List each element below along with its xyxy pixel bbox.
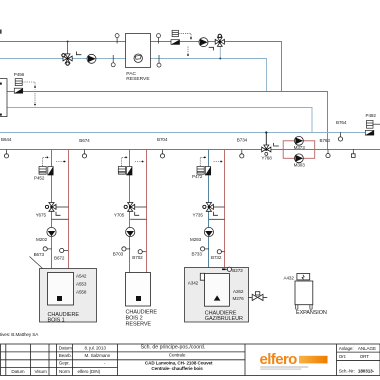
stub circle below blue before PAC: [111, 55, 115, 67]
boiler 3 outer box: [185, 268, 249, 323]
wire: red riser 2: [146, 150, 148, 273]
sensor group 2: [118, 157, 144, 176]
svg-text:B704: B704: [157, 137, 168, 142]
svg-text:B644: B644: [1, 137, 12, 142]
svg-text:B732: B732: [211, 255, 222, 260]
svg-text:A342: A342: [188, 280, 199, 285]
svg-text:ANLAGE: ANLAGE: [358, 346, 376, 351]
svg-text:M293: M293: [190, 237, 202, 242]
clipped label top-left: [0, 30, 2, 34]
svg-text:P456: P456: [14, 72, 25, 77]
stub circle above red after PAC: [157, 34, 161, 44]
square well sensor: [352, 149, 356, 157]
boiler 2 box: [126, 273, 151, 307]
flag on red line: [171, 40, 180, 45]
svg-text:Y705: Y705: [114, 213, 125, 218]
svg-text:Bearb.: Bearb.: [59, 353, 72, 358]
svg-text:A432: A432: [284, 276, 295, 281]
svg-text:elfero: elfero: [260, 351, 298, 368]
wire: blue header y=132.2: [0, 132, 374, 134]
svg-text:Sch. de principe-pos./coord.: Sch. de principe-pos./coord.: [141, 344, 206, 350]
boiler 1 inner box: [48, 273, 74, 306]
pump P2 on red: [199, 38, 208, 47]
control dashed line P456: [22, 82, 35, 107]
pump P1 on blue: [87, 54, 96, 63]
svg-text:B764: B764: [336, 120, 347, 125]
svg-text:B733: B733: [192, 252, 203, 257]
svg-text:B702: B702: [132, 255, 143, 260]
valve V1 3-way on blue: [62, 42, 72, 65]
svg-text:CAD Lanvoina, CH- 2108 Couvet: CAD Lanvoina, CH- 2108 Couvet: [145, 361, 213, 366]
svg-text:B673: B673: [34, 252, 45, 257]
sensor B273: [222, 267, 243, 273]
elfero logo: [260, 351, 328, 370]
wire: tier2 blue y=107.8: [7, 108, 312, 133]
sensor B764 on blue header: [336, 120, 347, 141]
svg-text:tives: B.Matthey SA: tives: B.Matthey SA: [0, 332, 39, 337]
svg-text:8. jul. 2013: 8. jul. 2013: [85, 345, 107, 350]
pump M293: [190, 227, 213, 241]
sensor P456 flag on red tier2: [14, 88, 22, 93]
burner mark: [57, 296, 62, 301]
sensor B734: [237, 138, 248, 158]
svg-text:P472: P472: [192, 174, 203, 179]
wire: red header y=149.3: [0, 149, 380, 151]
svg-text:Datum: Datum: [59, 345, 72, 350]
svg-text:A558: A558: [76, 290, 87, 295]
wire: red riser 3: [224, 150, 226, 274]
svg-text:B734: B734: [237, 138, 248, 143]
sensor P472 group: [192, 157, 223, 180]
svg-text:Y675: Y675: [36, 213, 47, 218]
burner mark: [136, 296, 141, 301]
dashed control to valve: [178, 33, 191, 56]
wire: top blue return main y=58.7: [0, 59, 267, 92]
svg-text:B672: B672: [54, 255, 65, 260]
pump M373: [295, 136, 304, 145]
collector box left edge: [0, 79, 7, 117]
svg-text:Y768: Y768: [261, 156, 272, 161]
svg-text:Visum: Visum: [35, 369, 47, 374]
valve Y675: [36, 203, 69, 220]
junction: [219, 58, 221, 60]
wire: tier2 red y=91: [7, 92, 328, 150]
stub circle above red before PAC: [115, 34, 119, 44]
svg-text:B273: B273: [232, 268, 243, 273]
valve Y735: [193, 203, 225, 220]
svg-text:B674: B674: [79, 138, 90, 143]
svg-text:Sch.-Nr:: Sch.-Nr:: [339, 369, 355, 374]
svg-text:A262: A262: [233, 289, 244, 294]
svg-text:P452: P452: [34, 176, 45, 181]
sensor P492: [365, 113, 380, 135]
svg-text:B703: B703: [113, 252, 124, 257]
sensor P452 group: [34, 157, 66, 181]
svg-text:GAZ/BRULEUR: GAZ/BRULEUR: [205, 316, 243, 322]
sensor B732: [211, 250, 225, 261]
burner triangle: [214, 295, 221, 300]
svg-text:Centrale: Centrale: [169, 352, 186, 357]
stub circle below blue after PAC: [157, 55, 161, 67]
wire: teal drop 1: [51, 150, 53, 273]
manual handle mark: [76, 52, 81, 55]
T handle mark: [209, 47, 214, 50]
boiler 3 inner box: [205, 274, 230, 307]
svg-text:Y735: Y735: [193, 213, 204, 218]
compressor symbol: [134, 54, 142, 62]
svg-text:EXPANSION: EXPANSION: [296, 310, 327, 316]
sensor P456 instrument box: [15, 79, 22, 86]
svg-text:M276: M276: [233, 296, 245, 301]
PAC RESERVE box: [126, 34, 151, 68]
svg-text:elfero (DIN): elfero (DIN): [78, 369, 101, 374]
pump M303: [295, 154, 304, 163]
sensor B672: [54, 248, 68, 260]
svg-text:ORT: ORT: [360, 354, 370, 359]
pump 2: [126, 227, 135, 236]
svg-text:A542: A542: [76, 274, 87, 279]
valve V2 4-way on red: [215, 34, 224, 59]
svg-text:RESERVE: RESERVE: [126, 321, 152, 327]
sensor B703: [113, 247, 130, 257]
sensor B733: [192, 247, 209, 257]
wire: teal drop 2: [129, 150, 131, 273]
boiler 1 outer box: [40, 269, 97, 323]
handle mark: [274, 143, 279, 146]
svg-text:Centrale- chaufferie bois: Centrale- chaufferie bois: [151, 366, 203, 371]
svg-text:M202: M202: [36, 237, 48, 242]
side box A342: [200, 273, 204, 280]
svg-text:Ort:: Ort:: [339, 354, 346, 359]
svg-text:Datum: Datum: [11, 369, 24, 374]
gas valve: [249, 292, 268, 301]
svg-text:180313-: 180313-: [358, 369, 375, 374]
instrument sensor above red (unlabeled): [172, 30, 178, 36]
valve Y768 on red header: [261, 131, 272, 160]
svg-text:Gepr.: Gepr.: [59, 360, 70, 365]
wire: red riser 1: [68, 150, 70, 273]
expansion vessel: [284, 274, 327, 316]
sensor B702: [132, 250, 146, 261]
wire: top red flow main y=41.8: [0, 42, 282, 92]
junction: [67, 41, 69, 43]
pump M202: [36, 227, 56, 242]
sensor B673: [34, 247, 52, 257]
leader diagonal: [30, 257, 48, 273]
svg-text:M373: M373: [294, 145, 306, 150]
sensor B674: [79, 138, 90, 158]
sensor B763: [320, 138, 331, 158]
svg-text:M. Salzmann: M. Salzmann: [85, 353, 111, 358]
sensor B644: [1, 137, 12, 158]
svg-text:P492: P492: [366, 113, 377, 118]
svg-text:A553: A553: [76, 282, 87, 287]
wire: teal drop 3: [208, 150, 210, 274]
svg-text:B763: B763: [320, 138, 331, 143]
svg-text:M303: M303: [294, 162, 306, 167]
sensor B704: [157, 137, 168, 158]
valve Y705: [114, 203, 147, 220]
svg-text:BOIS 1: BOIS 1: [48, 318, 65, 324]
svg-text:Anlage:: Anlage:: [339, 346, 354, 351]
svg-text:RESERVE: RESERVE: [126, 76, 150, 82]
svg-text:Norm: Norm: [59, 369, 70, 374]
pump manifold M373/M303: [283, 136, 315, 167]
